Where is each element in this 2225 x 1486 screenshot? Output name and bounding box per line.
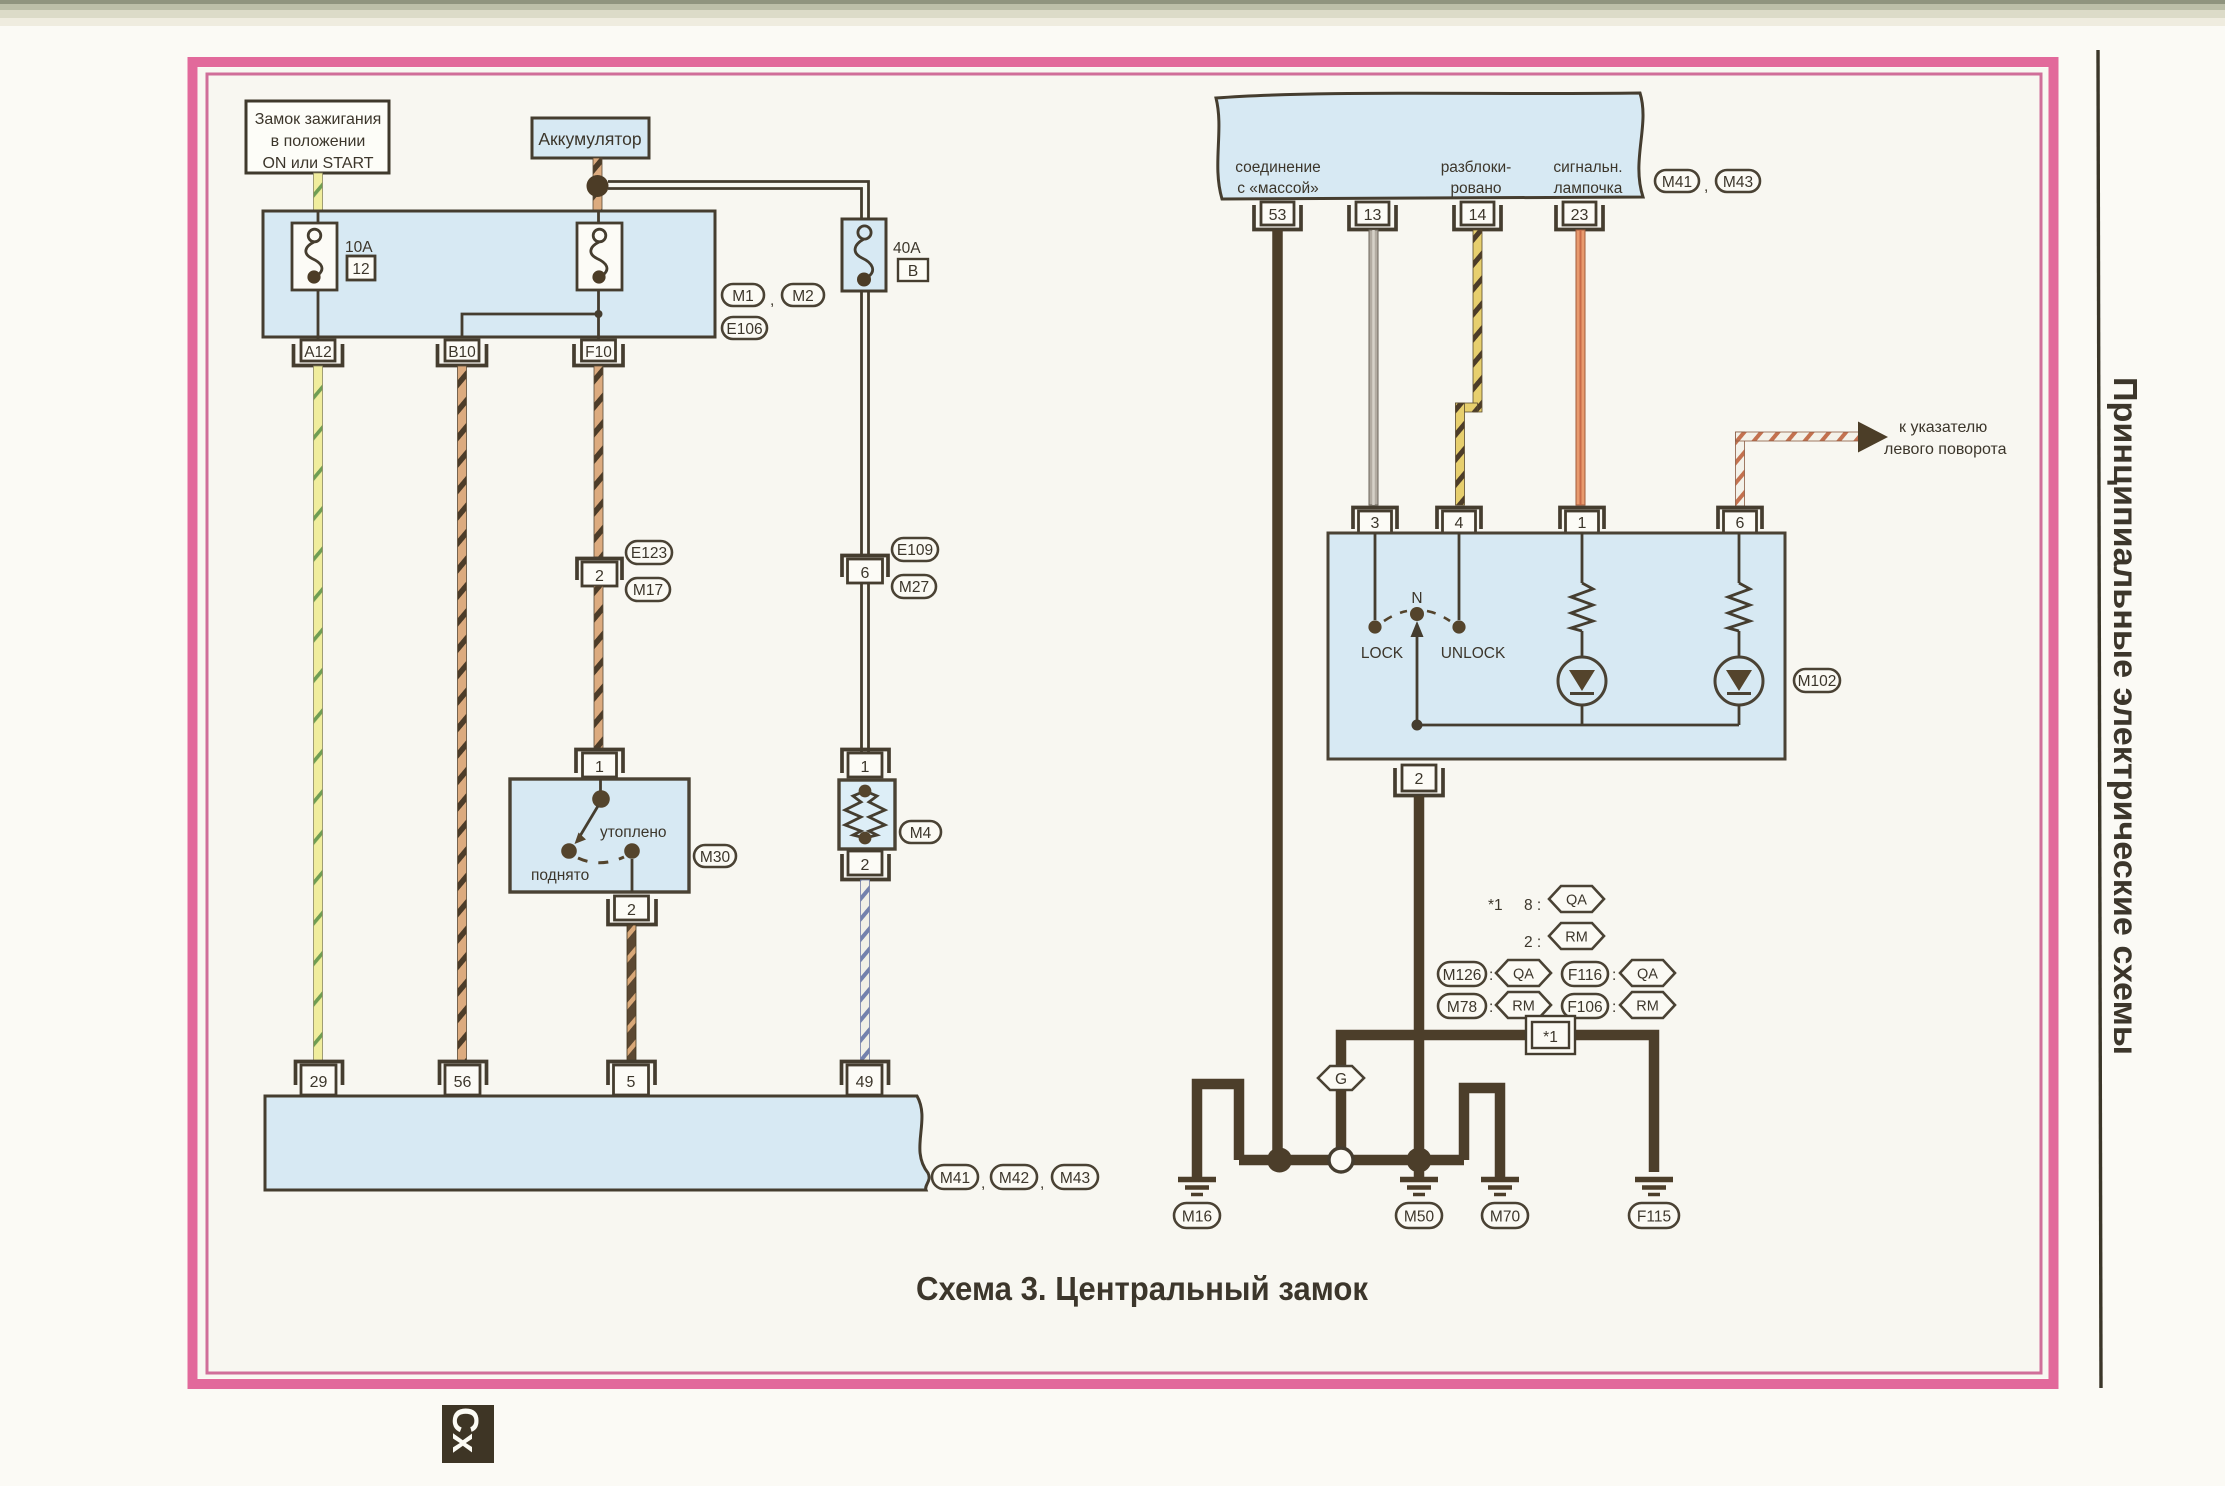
label M42 bbox=[991, 1165, 1037, 1189]
label F115 bbox=[1629, 1203, 1679, 1228]
svg-text:в положении: в положении bbox=[271, 133, 366, 150]
connector 53 bbox=[1254, 202, 1301, 230]
label M16 bbox=[1174, 1203, 1220, 1228]
resistor R1 bbox=[1571, 533, 1593, 657]
wire inside fuse box at A12 bbox=[317, 211, 320, 224]
M50 stub wire bbox=[1414, 1160, 1425, 1177]
label M2 bbox=[782, 284, 824, 306]
svg-text:1: 1 bbox=[1578, 515, 1587, 532]
connector M102 pin 4 bbox=[1437, 508, 1481, 534]
pink outer frame bbox=[193, 62, 2054, 1384]
resistor box M4 bbox=[839, 780, 895, 849]
svg-text:разблоки-: разблоки- bbox=[1441, 159, 1512, 176]
connector M102 pin 6 bbox=[1718, 508, 1762, 534]
svg-text:M41: M41 bbox=[940, 1170, 970, 1187]
hex QA a bbox=[1549, 886, 1604, 912]
harness box bottom left M41/M42/M43 bbox=[265, 1096, 929, 1190]
svg-text:RM: RM bbox=[1565, 930, 1588, 946]
publisher logo Сх bbox=[442, 1405, 494, 1463]
label M50 bbox=[1396, 1203, 1442, 1228]
svg-text:ровано: ровано bbox=[1450, 180, 1501, 197]
svg-text:E106: E106 bbox=[726, 321, 762, 338]
svg-text:M126: M126 bbox=[1443, 967, 1482, 984]
svg-text:,: , bbox=[1040, 1175, 1044, 1192]
svg-text:Схема 3. Центральный замок: Схема 3. Центральный замок bbox=[916, 1270, 1368, 1307]
svg-text:левого поворота: левого поворота bbox=[1884, 441, 2007, 458]
pink inner thin frame bbox=[207, 74, 2041, 1373]
wire inside fuse box at F10 bbox=[597, 211, 600, 224]
wire 53 ground (thick) bbox=[1272, 230, 1283, 1160]
hex QA c bbox=[1620, 960, 1675, 986]
svg-text::: : bbox=[1612, 999, 1616, 1016]
svg-text:E123: E123 bbox=[631, 545, 667, 562]
svg-text:Принципиальные электрические с: Принципиальные электрические схемы bbox=[2107, 377, 2144, 1055]
svg-text:поднято: поднято bbox=[531, 867, 589, 884]
svg-text:3: 3 bbox=[1371, 515, 1380, 532]
label M78 bbox=[1438, 994, 1486, 1018]
label M70 bbox=[1482, 1203, 1528, 1228]
label B box bbox=[898, 259, 928, 281]
svg-text:8 :: 8 : bbox=[1524, 897, 1541, 914]
wire M4 to 49 (white/blue striped) bbox=[861, 880, 870, 1062]
wire 40A to E109 (double line) bbox=[862, 291, 869, 556]
svg-text:M27: M27 bbox=[899, 579, 929, 596]
svg-text:5: 5 bbox=[627, 1074, 636, 1091]
svg-text:29: 29 bbox=[310, 1074, 328, 1091]
label E123 bbox=[626, 541, 672, 564]
fuse F2 (F10) bbox=[577, 223, 622, 290]
fuse block box M1/M2/E106 bbox=[263, 211, 715, 337]
svg-text:M43: M43 bbox=[1060, 1170, 1090, 1187]
connector 29 bbox=[296, 1062, 343, 1096]
label M43 right bbox=[1716, 170, 1760, 192]
svg-text:13: 13 bbox=[1364, 207, 1382, 224]
fuse F1 10A bbox=[292, 223, 337, 290]
connector 49 bbox=[842, 1062, 889, 1096]
switch box M30 bbox=[510, 779, 689, 892]
svg-text:M30: M30 bbox=[700, 849, 731, 866]
M70 branch wire bbox=[1464, 1088, 1500, 1177]
svg-text:B10: B10 bbox=[448, 344, 476, 361]
svg-text:QA: QA bbox=[1637, 967, 1658, 983]
svg-text:соединение: соединение bbox=[1235, 159, 1321, 176]
hex RM a bbox=[1549, 923, 1604, 949]
label E109 bbox=[892, 538, 938, 561]
svg-text:,: , bbox=[1704, 178, 1708, 195]
hex RM b bbox=[1496, 992, 1551, 1018]
svg-text:2: 2 bbox=[595, 568, 604, 585]
svg-text:с «массой»: с «массой» bbox=[1237, 180, 1319, 197]
svg-text:23: 23 bbox=[1571, 207, 1589, 224]
wire E123 to M30 pin1 (tan striped) bbox=[594, 586, 603, 748]
svg-text:N: N bbox=[1411, 590, 1422, 607]
wire inside fuse box to B10 bbox=[462, 314, 599, 337]
wire 14 to 4 (yellow striped, jog) bbox=[1456, 230, 1483, 505]
contact N bbox=[1410, 607, 1424, 621]
connector M30 pin 2 bbox=[608, 896, 656, 925]
svg-text:M70: M70 bbox=[1490, 1209, 1521, 1226]
label M41 right bbox=[1655, 170, 1699, 192]
svg-text:UNLOCK: UNLOCK bbox=[1441, 645, 1506, 662]
svg-text:2: 2 bbox=[861, 857, 870, 874]
scanner top edge band bbox=[0, 0, 2225, 26]
connector M102 pin 3 bbox=[1353, 508, 1397, 534]
ground M70 bbox=[1481, 1180, 1519, 1195]
wire pin4 to UNLOCK contact bbox=[1458, 533, 1461, 620]
svg-text:6: 6 bbox=[1736, 515, 1745, 532]
hex RM c bbox=[1620, 992, 1675, 1018]
resistor R2 bbox=[1728, 533, 1750, 657]
svg-text:M1: M1 bbox=[732, 288, 754, 305]
connector M4 pin 1 bbox=[842, 750, 889, 778]
svg-text:ON или START: ON или START bbox=[262, 155, 373, 172]
connector 23 bbox=[1556, 202, 1603, 230]
wire double-line battery to 40A fuse bbox=[608, 182, 869, 220]
svg-text:F116: F116 bbox=[1568, 967, 1602, 984]
svg-text:Аккумулятор: Аккумулятор bbox=[538, 129, 641, 149]
connector 14 bbox=[1454, 202, 1501, 230]
svg-text:M4: M4 bbox=[910, 825, 932, 842]
wire M30 pin2 to 5 (dark/tan striped) bbox=[627, 925, 636, 1062]
ground bus junction line bbox=[1239, 1155, 1464, 1166]
page inner tint bbox=[198, 68, 2049, 1378]
ground F115 bbox=[1635, 1180, 1673, 1195]
node splice circle G bbox=[1329, 1148, 1353, 1172]
connector 5 bbox=[608, 1062, 655, 1096]
svg-text:Сх: Сх bbox=[445, 1407, 486, 1453]
label 12 box bbox=[347, 256, 375, 280]
wire 13 to 3 (gray) bbox=[1369, 230, 1378, 505]
svg-text:RM: RM bbox=[1636, 999, 1659, 1015]
svg-text:Замок зажигания: Замок зажигания bbox=[255, 111, 382, 128]
svg-text:QA: QA bbox=[1513, 967, 1534, 983]
contact UNLOCK bbox=[1452, 620, 1465, 633]
node battery junction bbox=[587, 175, 609, 197]
wire ignition to fuse box (yellow/green) bbox=[314, 173, 323, 213]
node switch common bbox=[1412, 720, 1423, 731]
svg-text:сигнальн.: сигнальн. bbox=[1553, 159, 1622, 176]
svg-text:,: , bbox=[981, 1175, 985, 1192]
svg-text:6: 6 bbox=[861, 565, 870, 582]
svg-text:M2: M2 bbox=[792, 288, 814, 305]
connector M102 pin 2 bbox=[1395, 765, 1443, 796]
node inner junction F10/B10 bbox=[595, 310, 603, 318]
label M30 bbox=[694, 845, 736, 867]
wire F10 to E123 (tan striped) bbox=[594, 366, 603, 557]
connector E123/M17 pin 2 bbox=[577, 559, 622, 587]
label F106 bbox=[1562, 994, 1608, 1018]
svg-text:M16: M16 bbox=[1182, 1209, 1212, 1226]
svg-text:1: 1 bbox=[861, 759, 870, 776]
node dot A bbox=[1267, 1148, 1292, 1173]
svg-text:A12: A12 bbox=[304, 344, 332, 361]
switch common arrow bbox=[1411, 621, 1424, 725]
ground M50 bbox=[1400, 1180, 1438, 1195]
ground M16 bbox=[1178, 1180, 1216, 1195]
svg-text:к указателю: к указателю bbox=[1899, 419, 1987, 436]
svg-text::: : bbox=[1489, 999, 1493, 1016]
svg-text:M43: M43 bbox=[1723, 174, 1753, 191]
svg-text:M50: M50 bbox=[1404, 1209, 1435, 1226]
svg-text:E109: E109 bbox=[897, 542, 933, 559]
box ignition switch label bbox=[246, 101, 389, 173]
svg-text:2 :: 2 : bbox=[1524, 934, 1541, 951]
contact LOCK bbox=[1368, 620, 1381, 633]
label E106 bbox=[722, 317, 767, 339]
svg-text:40A: 40A bbox=[893, 240, 921, 257]
svg-text:M42: M42 bbox=[999, 1170, 1029, 1187]
svg-text:утоплено: утоплено bbox=[600, 824, 667, 841]
actuator box M102 bbox=[1328, 533, 1785, 759]
svg-text:2: 2 bbox=[627, 902, 636, 919]
svg-text:F106: F106 bbox=[1567, 999, 1602, 1016]
wire G to splice bbox=[1336, 1090, 1347, 1150]
label M1 bbox=[722, 284, 764, 306]
label M41 bbox=[932, 1165, 978, 1189]
LED D1 bbox=[1558, 657, 1606, 725]
arrow to left turn indicator bbox=[1858, 422, 1888, 453]
svg-text:14: 14 bbox=[1469, 207, 1487, 224]
connector M4 pin 2 bbox=[842, 851, 889, 880]
svg-text:F115: F115 bbox=[1637, 1209, 1671, 1226]
svg-text:F10: F10 bbox=[585, 344, 612, 361]
connector M102 pin 1 bbox=[1560, 508, 1604, 534]
label M17 bbox=[626, 578, 670, 601]
connector B10 bbox=[438, 340, 487, 366]
svg-text:M41: M41 bbox=[1662, 174, 1692, 191]
wire B10 to 56 (tan striped) bbox=[458, 366, 467, 1062]
junction box *1 bbox=[1526, 1016, 1575, 1054]
svg-text:B: B bbox=[908, 263, 918, 280]
svg-text:12: 12 bbox=[352, 261, 369, 278]
label M4 bbox=[900, 821, 941, 843]
label M43 bbox=[1052, 1165, 1098, 1189]
wire pin3 to LOCK contact bbox=[1374, 533, 1377, 620]
connector M30 pin 1 bbox=[576, 750, 623, 778]
LED D2 bbox=[1715, 657, 1763, 725]
page fold vertical black line bbox=[2098, 50, 2101, 1388]
bus line to LEDs bbox=[1417, 724, 1739, 727]
svg-text:53: 53 bbox=[1269, 207, 1287, 224]
svg-text:1: 1 bbox=[595, 759, 604, 776]
svg-text::: : bbox=[1612, 967, 1616, 984]
wire 6 to turn indicator (white/red striped) bbox=[1736, 432, 1860, 506]
svg-text:M78: M78 bbox=[1447, 999, 1477, 1016]
svg-text:M17: M17 bbox=[633, 582, 663, 599]
box battery bbox=[532, 118, 649, 158]
harness box top right bbox=[1216, 93, 1643, 199]
label F116 bbox=[1562, 962, 1608, 986]
wire A12 to 29 (yellow/green) bbox=[314, 366, 323, 1062]
svg-text:RM: RM bbox=[1512, 999, 1535, 1015]
svg-text:56: 56 bbox=[454, 1074, 472, 1091]
hex G bbox=[1318, 1066, 1364, 1090]
svg-text:M102: M102 bbox=[1798, 673, 1837, 690]
node dot B bbox=[1407, 1148, 1432, 1173]
wire 23 to 1 (orange) bbox=[1576, 230, 1585, 505]
fuse 40A box bbox=[842, 219, 886, 291]
wire *1 horizontal run bbox=[1341, 1035, 1654, 1172]
svg-text:,: , bbox=[770, 292, 774, 309]
connector F10 bbox=[574, 340, 623, 366]
wire pin2 to ground net (thick) bbox=[1414, 796, 1425, 1160]
wire battery to junction (tan striped) bbox=[593, 158, 602, 213]
connector 56 bbox=[440, 1062, 487, 1096]
svg-text:G: G bbox=[1335, 1071, 1347, 1088]
svg-text:49: 49 bbox=[856, 1074, 874, 1091]
svg-text:*1: *1 bbox=[1488, 897, 1503, 914]
svg-text:*1: *1 bbox=[1543, 1029, 1558, 1046]
svg-text:2: 2 bbox=[1415, 771, 1424, 788]
connector A12 bbox=[294, 340, 343, 366]
M16 branch wire bbox=[1197, 1084, 1239, 1177]
svg-text::: : bbox=[1489, 967, 1493, 984]
connector E109/M27 pin 6 bbox=[842, 556, 888, 584]
label M27 bbox=[892, 575, 936, 598]
svg-text:QA: QA bbox=[1566, 893, 1587, 909]
svg-text:4: 4 bbox=[1455, 515, 1464, 532]
label M102 bbox=[1794, 669, 1840, 692]
wire E109 to M4 pin1 (double line) bbox=[862, 583, 869, 752]
label M126 bbox=[1438, 962, 1486, 986]
svg-text:10A: 10A bbox=[345, 239, 373, 256]
svg-text:лампочка: лампочка bbox=[1554, 180, 1623, 197]
connector 13 bbox=[1349, 202, 1396, 230]
hex QA b bbox=[1496, 960, 1551, 986]
svg-text:LOCK: LOCK bbox=[1361, 645, 1404, 662]
dashed switch arcs bbox=[1384, 611, 1407, 621]
